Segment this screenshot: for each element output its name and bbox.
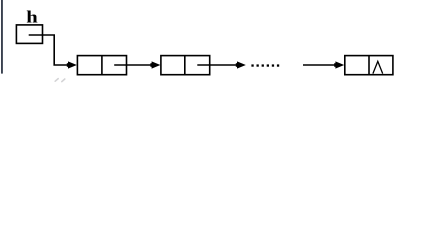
null mark (caret) in last node [373, 61, 383, 73]
wire into last node [303, 64, 336, 66]
ellipsis dots [251, 64, 279, 66]
head pointer box h [16, 25, 42, 44]
node 1 divider [101, 56, 103, 75]
left edge line [1, 0, 3, 74]
last node box [345, 56, 393, 75]
node 1 box [77, 56, 126, 75]
node 2 box [161, 56, 210, 75]
last node divider [368, 56, 370, 75]
arrowhead after node 2 [237, 61, 246, 68]
svg-text:h: h [26, 8, 38, 27]
wire node 2 next pointer [197, 64, 237, 66]
arrowhead into node 2 [152, 61, 161, 68]
arrowhead into node 1 [68, 61, 77, 68]
label h [26, 8, 38, 27]
wire from h box (right then down then right) [29, 35, 69, 65]
wire node 1 next pointer [114, 64, 152, 66]
faint artifact marks [55, 79, 65, 82]
node 2 divider [184, 56, 186, 75]
arrowhead into last node [335, 61, 344, 68]
